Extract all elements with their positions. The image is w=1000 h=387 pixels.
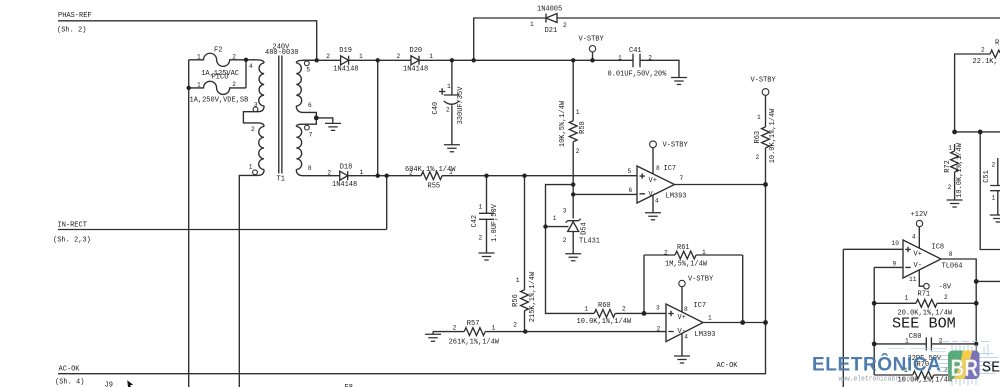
svg-text:C40: C40 <box>432 102 440 115</box>
svg-text:9: 9 <box>893 260 897 267</box>
svg-text:R72: R72 <box>944 160 952 173</box>
svg-text:4: 4 <box>655 198 659 205</box>
svg-text:1: 1 <box>905 295 909 302</box>
svg-text:10K,5%,1/4W: 10K,5%,1/4W <box>559 100 567 147</box>
svg-text:4: 4 <box>912 234 916 241</box>
svg-text:V-: V- <box>914 262 922 270</box>
svg-text:10.0K,1%,1/4W: 10.0K,1%,1/4W <box>577 318 632 326</box>
svg-text:-8V: -8V <box>939 284 952 292</box>
svg-text:10.0K,1%,1/4W: 10.0K,1%,1/4W <box>769 108 777 163</box>
svg-text:D18: D18 <box>340 164 353 172</box>
svg-text:TL431: TL431 <box>579 237 600 245</box>
svg-text:1: 1 <box>948 145 952 152</box>
svg-text:1M,5%,1/4W: 1M,5%,1/4W <box>665 261 708 269</box>
svg-text:5: 5 <box>628 168 632 175</box>
svg-text:1: 1 <box>197 54 201 61</box>
svg-text:2: 2 <box>948 184 952 191</box>
svg-text:3: 3 <box>254 102 258 109</box>
svg-text:(Sh. 4): (Sh. 4) <box>55 379 84 387</box>
svg-text:2: 2 <box>563 22 567 29</box>
svg-text:7: 7 <box>680 175 684 182</box>
svg-text:V-STBY: V-STBY <box>579 36 605 44</box>
svg-text:480-0030: 480-0030 <box>265 49 299 57</box>
svg-text:1: 1 <box>576 109 580 116</box>
svg-text:R60: R60 <box>598 302 611 310</box>
svg-text:1N4148: 1N4148 <box>332 181 357 189</box>
svg-text:10.0K,1%,1/4W: 10.0K,1%,1/4W <box>956 142 964 197</box>
svg-text:1: 1 <box>702 249 706 256</box>
svg-text:ELETRÔNICA: ELETRÔNICA <box>812 354 942 376</box>
svg-text:1N4148: 1N4148 <box>333 66 358 74</box>
svg-text:1: 1 <box>757 114 761 121</box>
svg-text:8: 8 <box>656 165 660 172</box>
svg-text:D54: D54 <box>580 222 588 235</box>
svg-text:R56: R56 <box>512 294 520 307</box>
svg-text:215K,1%,1/4W: 215K,1%,1/4W <box>529 271 537 322</box>
svg-text:AC-OK: AC-OK <box>59 366 81 374</box>
svg-text:LM393: LM393 <box>695 331 716 339</box>
svg-text:V+: V+ <box>649 177 657 185</box>
svg-text:1: 1 <box>449 169 453 176</box>
svg-text:2: 2 <box>446 107 450 114</box>
svg-text:2: 2 <box>479 235 483 242</box>
svg-text:22.1K,: 22.1K, <box>973 58 998 66</box>
svg-text:D21: D21 <box>545 27 558 35</box>
svg-text:1: 1 <box>530 21 534 28</box>
svg-text:C41: C41 <box>629 47 642 55</box>
svg-text:AC-OK: AC-OK <box>717 362 739 370</box>
svg-text:2: 2 <box>664 249 668 256</box>
svg-text:2: 2 <box>251 126 255 133</box>
svg-text:1: 1 <box>492 324 496 331</box>
svg-text:V+: V+ <box>678 314 686 322</box>
svg-text:1: 1 <box>992 195 996 202</box>
svg-text:www.eletronicabr.com: www.eletronicabr.com <box>839 375 915 383</box>
svg-text:6: 6 <box>308 102 312 109</box>
svg-text:1: 1 <box>618 55 622 62</box>
svg-text:1: 1 <box>708 315 712 322</box>
svg-text:1: 1 <box>479 204 483 211</box>
svg-text:2: 2 <box>327 169 331 176</box>
svg-text:C42: C42 <box>471 215 479 228</box>
svg-text:F2: F2 <box>214 47 222 55</box>
svg-text:1: 1 <box>516 277 520 284</box>
svg-text:261K,1%,1/4W: 261K,1%,1/4W <box>449 339 500 347</box>
svg-text:J9: J9 <box>105 381 113 387</box>
svg-text:D20: D20 <box>410 47 423 55</box>
svg-text:2: 2 <box>563 237 567 244</box>
svg-text:IC7: IC7 <box>694 302 707 310</box>
svg-text:1N4148: 1N4148 <box>403 66 428 74</box>
svg-text:(Sh. 2,3): (Sh. 2,3) <box>53 237 91 245</box>
svg-text:5: 5 <box>306 66 310 73</box>
svg-text:11: 11 <box>909 276 917 283</box>
svg-text:1: 1 <box>447 83 451 90</box>
svg-text:PHAS-REF: PHAS-REF <box>58 12 92 20</box>
svg-text:SEE BOM: SEE BOM <box>892 314 956 332</box>
svg-text:3: 3 <box>656 305 660 312</box>
svg-text:C51: C51 <box>983 170 991 183</box>
svg-text:R63: R63 <box>754 131 762 144</box>
svg-text:1: 1 <box>360 169 364 176</box>
svg-text:4: 4 <box>249 63 253 70</box>
svg-text:SEE B: SEE B <box>982 359 1000 377</box>
svg-text:2: 2 <box>657 326 661 333</box>
svg-text:2: 2 <box>576 148 580 155</box>
svg-text:8: 8 <box>684 306 688 313</box>
svg-text:2: 2 <box>409 170 413 177</box>
svg-text:1: 1 <box>553 215 557 222</box>
svg-text:IC7: IC7 <box>664 165 677 173</box>
svg-text:R57: R57 <box>467 320 480 328</box>
svg-text:6: 6 <box>629 187 633 194</box>
svg-text:R61: R61 <box>677 244 690 252</box>
svg-text:PICO: PICO <box>212 74 229 82</box>
svg-text:1: 1 <box>905 338 909 345</box>
svg-text:T1: T1 <box>277 176 285 184</box>
svg-text:1: 1 <box>249 164 253 171</box>
svg-text:LM393: LM393 <box>666 193 687 201</box>
svg-text:4: 4 <box>684 334 688 341</box>
svg-text:(Sh. 2): (Sh. 2) <box>57 26 86 34</box>
svg-text:IC8: IC8 <box>932 243 945 251</box>
svg-text:R7: R7 <box>995 40 1000 48</box>
svg-text:1: 1 <box>429 53 433 60</box>
svg-text:3: 3 <box>563 207 567 214</box>
svg-text:1.0UF,50V: 1.0UF,50V <box>491 203 499 242</box>
svg-text:2: 2 <box>453 325 457 332</box>
svg-text:2: 2 <box>756 154 760 161</box>
svg-text:2: 2 <box>326 53 330 60</box>
svg-text:+12V: +12V <box>911 211 929 219</box>
svg-text:R58: R58 <box>579 121 587 134</box>
svg-text:V-STBY: V-STBY <box>688 275 714 283</box>
svg-text:2: 2 <box>232 81 236 88</box>
svg-text:IN-RECT: IN-RECT <box>58 222 87 230</box>
svg-text:C80: C80 <box>909 333 922 341</box>
svg-text:2: 2 <box>232 54 236 61</box>
svg-text:2: 2 <box>513 321 517 328</box>
svg-text:R71: R71 <box>918 291 931 299</box>
svg-text:8: 8 <box>949 251 953 258</box>
svg-text:2: 2 <box>648 55 652 62</box>
svg-text:7: 7 <box>309 131 313 138</box>
svg-text:1N4005: 1N4005 <box>537 5 562 13</box>
svg-text:BR: BR <box>951 355 979 382</box>
svg-text:2: 2 <box>397 53 401 60</box>
svg-text:V-STBY: V-STBY <box>663 142 689 150</box>
svg-text:1A,250V,VDE,SB: 1A,250V,VDE,SB <box>190 96 249 104</box>
svg-text:10: 10 <box>892 240 900 247</box>
svg-text:1: 1 <box>197 82 201 89</box>
svg-text:TL064: TL064 <box>942 263 963 271</box>
svg-text:2: 2 <box>622 306 626 313</box>
svg-text:V-STBY: V-STBY <box>751 77 777 85</box>
svg-text:330UF/35V: 330UF/35V <box>457 86 465 125</box>
svg-text:V+: V+ <box>914 250 922 258</box>
svg-text:1: 1 <box>359 53 363 60</box>
svg-text:2: 2 <box>944 294 948 301</box>
svg-text:2: 2 <box>992 162 996 169</box>
svg-text:R55: R55 <box>428 182 441 190</box>
svg-text:1: 1 <box>584 306 588 313</box>
svg-text:8: 8 <box>308 165 312 172</box>
svg-text:2: 2 <box>981 47 985 54</box>
svg-text:D19: D19 <box>339 47 352 55</box>
svg-text:0.01UF,50V,20%: 0.01UF,50V,20% <box>608 71 668 79</box>
